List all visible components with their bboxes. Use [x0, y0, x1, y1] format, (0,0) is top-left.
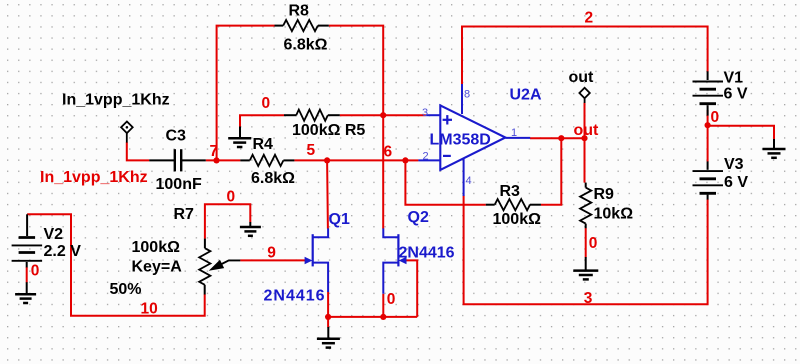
- wire Q2 gate to node 0: [406, 260, 417, 317]
- svg-text:7: 7: [210, 143, 219, 160]
- svg-text:out: out: [569, 69, 595, 86]
- op-amp pin4 stub: [463, 159, 465, 196]
- op-amp minus input stub: [418, 159, 440, 161]
- wire R7 top to ground: [205, 204, 250, 239]
- battery V3: [693, 170, 724, 172]
- svg-text:0: 0: [227, 188, 236, 205]
- svg-text:LM358D: LM358D: [430, 131, 491, 148]
- svg-text:0: 0: [31, 262, 40, 279]
- svg-text:Key=A: Key=A: [132, 259, 183, 276]
- wire V2 top to node 10: [27, 214, 205, 315]
- svg-text:5: 5: [307, 142, 316, 159]
- potentiometer R7: [204, 239, 206, 249]
- op-amp plus input stub: [426, 114, 441, 116]
- svg-text:Q1: Q1: [329, 211, 350, 228]
- svg-text:10: 10: [141, 301, 158, 318]
- wire op-amp output row: [530, 137, 585, 139]
- svg-text:100kΩ R5: 100kΩ R5: [292, 122, 365, 139]
- svg-text:2: 2: [585, 9, 594, 26]
- ground G6 right: [773, 139, 775, 149]
- wire V2 ground stub: [26, 267, 28, 283]
- wire source ground stub: [327, 317, 329, 328]
- wire node 5 to Q1 drain: [326, 160, 329, 228]
- ground G1 at R5: [239, 127, 241, 139]
- wire input source drop: [127, 142, 149, 160]
- ground G3 at V2: [26, 282, 28, 294]
- source node 0 junction right: [380, 314, 386, 320]
- svg-text:out: out: [574, 122, 600, 139]
- svg-text:2: 2: [423, 151, 429, 163]
- wire R9 to ground node 0: [585, 228, 587, 257]
- ground G4 at sources: [327, 327, 329, 339]
- R8/R5 junction: [380, 112, 386, 118]
- svg-text:In_1vpp_1Khz: In_1vpp_1Khz: [40, 169, 148, 186]
- resistor R4: [240, 159, 250, 161]
- op-amp output stub: [505, 137, 530, 139]
- op-amp pin8 stub: [461, 84, 463, 114]
- svg-text:100nF: 100nF: [156, 176, 202, 193]
- wire node 9 wiper to Q1 gate: [240, 259, 305, 261]
- connector In_1vpp_1Khz diamond: [121, 122, 133, 134]
- svg-text:2N4416: 2N4416: [399, 244, 455, 261]
- source node 0 junction left: [325, 314, 331, 320]
- connector out diamond: [579, 88, 589, 98]
- wire node 5 row: [294, 159, 405, 161]
- svg-text:6: 6: [384, 143, 393, 160]
- wire node 2 top rail: [462, 27, 708, 72]
- node 7 junction: [213, 157, 219, 163]
- wire V1 V3 mid node 0: [707, 110, 709, 162]
- svg-text:6 V: 6 V: [724, 174, 748, 191]
- resistor R8: [275, 25, 284, 27]
- svg-text:4: 4: [466, 175, 472, 187]
- svg-text:8: 8: [464, 89, 470, 101]
- wire op-amp pin 8 supply: [461, 27, 463, 86]
- svg-text:Q2: Q2: [408, 209, 429, 226]
- transistor Q1: [312, 234, 314, 266]
- node 6 junction: [402, 157, 408, 163]
- resistor R3: [486, 204, 495, 206]
- capacitor C3: [149, 159, 174, 161]
- svg-text:In_1vpp_1Khz: In_1vpp_1Khz: [62, 92, 170, 109]
- wire source node 0 row: [328, 316, 417, 318]
- svg-text:0: 0: [711, 109, 720, 126]
- svg-text:R8: R8: [289, 3, 310, 20]
- svg-text:R3: R3: [500, 183, 521, 200]
- wire node 0 R5 to pin3: [340, 114, 426, 116]
- wire op-amp pin 4 to node 3: [464, 195, 708, 304]
- wire node 6 down to R3: [405, 160, 485, 204]
- op-amp minus mark: [443, 155, 451, 157]
- svg-text:0: 0: [387, 291, 396, 308]
- svg-text:6 V: 6 V: [724, 85, 748, 102]
- ground G5 at R9: [585, 257, 587, 270]
- svg-text:9: 9: [267, 245, 276, 262]
- wire Q1 source to node 0: [327, 292, 329, 317]
- wire Q2 source drop: [382, 294, 384, 317]
- svg-text:6.8kΩ: 6.8kΩ: [251, 170, 295, 187]
- resistor R5: [284, 114, 296, 116]
- node 5 junction: [324, 157, 330, 163]
- svg-text:2.2 V: 2.2 V: [44, 243, 82, 260]
- wire node 6 to pin 2: [405, 159, 418, 161]
- svg-text:2N4416: 2N4416: [264, 287, 326, 304]
- svg-text:3: 3: [422, 107, 428, 119]
- svg-text:3: 3: [584, 290, 593, 307]
- svg-text:1: 1: [511, 127, 517, 139]
- wire node 0 R5 ground stub: [240, 115, 284, 126]
- svg-text:100kΩ: 100kΩ: [493, 211, 542, 228]
- svg-text:R7: R7: [174, 206, 195, 223]
- wire R8 to Q2 drain: [382, 115, 384, 228]
- svg-text:0: 0: [589, 235, 598, 252]
- svg-text:V1: V1: [724, 69, 744, 86]
- svg-text:V2: V2: [44, 226, 64, 243]
- V1/V3 node 0 junction: [705, 122, 711, 128]
- svg-text:R9: R9: [594, 186, 615, 203]
- wire R8 left leg: [217, 26, 275, 161]
- svg-text:50%: 50%: [110, 281, 142, 298]
- svg-text:C3: C3: [166, 128, 187, 145]
- battery V1: [693, 81, 724, 83]
- svg-text:V3: V3: [724, 156, 744, 173]
- battery V2: [19, 236, 35, 239]
- output junction A: [558, 135, 564, 141]
- wire mid node to right ground: [708, 126, 774, 139]
- transistor Q2: [397, 234, 399, 266]
- wire C3 to node 7: [206, 159, 241, 161]
- svg-text:100kΩ: 100kΩ: [132, 239, 181, 256]
- op-amp plus mark: [443, 119, 452, 121]
- wire R8 right leg: [329, 26, 383, 116]
- resistor R9: [585, 183, 587, 188]
- svg-text:10kΩ: 10kΩ: [594, 206, 634, 223]
- svg-text:0: 0: [262, 95, 271, 112]
- output junction out: [581, 135, 587, 141]
- svg-text:R4: R4: [253, 136, 274, 153]
- ground G2 at R7: [249, 222, 251, 227]
- wire R3 to out node: [541, 138, 561, 205]
- op-amp U2A triangle: [440, 105, 505, 169]
- wire out connector drop: [584, 103, 586, 183]
- svg-text:6.8kΩ: 6.8kΩ: [284, 37, 328, 54]
- svg-text:U2A: U2A: [510, 86, 542, 103]
